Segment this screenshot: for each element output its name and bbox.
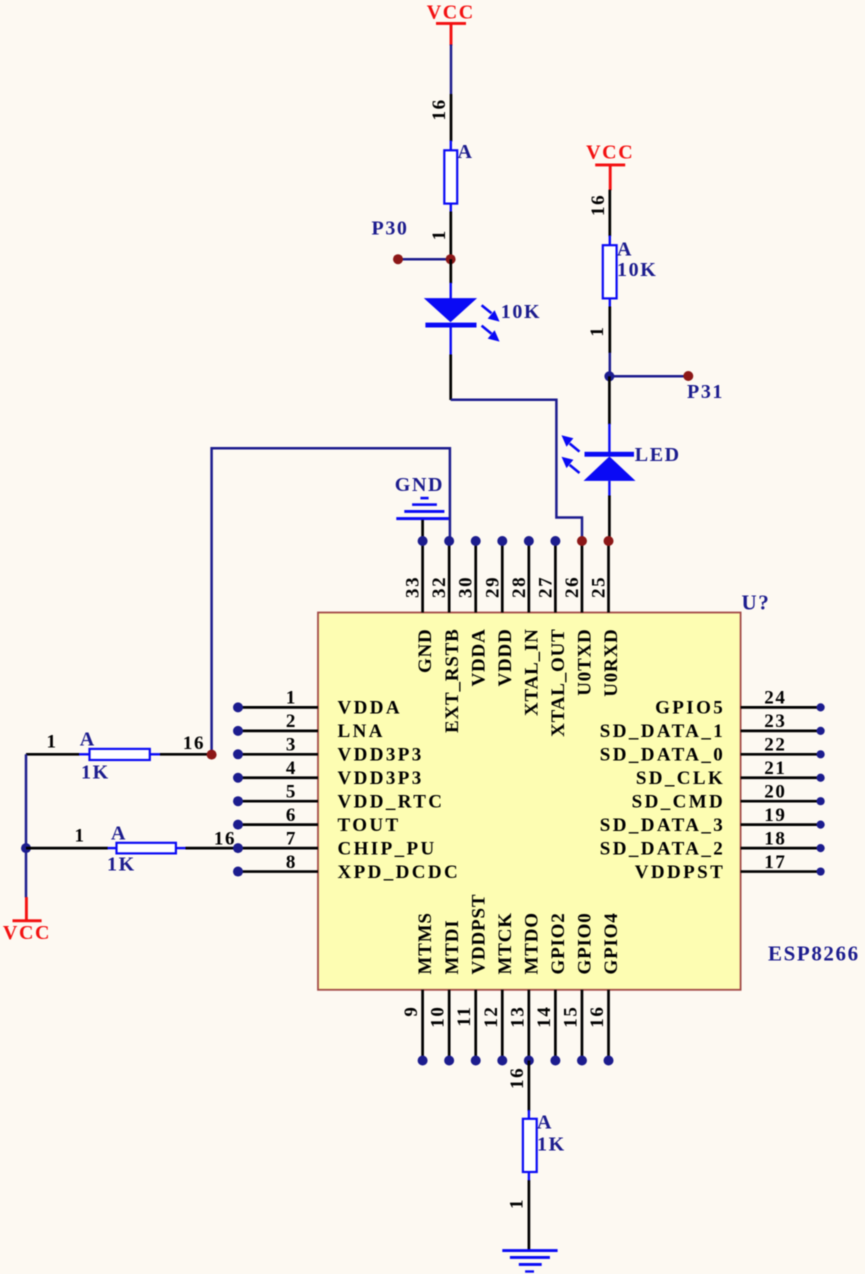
svg-text:12: 12 [481, 1006, 502, 1028]
svg-text:SD_DATA_0: SD_DATA_0 [600, 745, 725, 766]
pin 5 VDD_RTC (left) [233, 781, 444, 812]
pin 33 GND (top) [403, 536, 437, 673]
svg-text:GND: GND [415, 628, 436, 673]
svg-text:LNA: LNA [338, 721, 385, 742]
power symbol VCC (net VCC, upper right) [586, 142, 634, 191]
svg-text:GPIO2: GPIO2 [548, 912, 569, 974]
pin 13 MTDO (bottom) [507, 912, 542, 1065]
svg-text:16: 16 [214, 829, 236, 850]
part name ESP8266 [768, 942, 860, 966]
svg-text:1: 1 [429, 229, 450, 240]
label A (R3 value) [458, 141, 474, 163]
svg-text:1K: 1K [81, 762, 110, 784]
pin number 16 (R5 top pin) [507, 1067, 528, 1089]
wire LED D1 cathode to pin 26 U0TXD [451, 355, 582, 542]
pin number 1 (R1 left pin) [46, 732, 57, 753]
svg-text:LED: LED [635, 444, 681, 466]
svg-text:U?: U? [742, 591, 771, 615]
svg-text:1: 1 [46, 732, 57, 753]
pin 17 VDDPST (right) [635, 852, 825, 883]
svg-text:XTAL_IN: XTAL_IN [521, 628, 542, 716]
svg-text:VDDA: VDDA [468, 628, 489, 686]
svg-text:10K: 10K [617, 259, 657, 281]
svg-text:XPD_DCDC: XPD_DCDC [338, 862, 461, 883]
label A (R2) [617, 239, 633, 261]
pin number 1 (R2 bottom pin) [587, 325, 608, 336]
svg-text:U0TXD: U0TXD [575, 628, 596, 695]
svg-text:17: 17 [764, 852, 786, 873]
wire VCC to resistor R2 pin 16 [608, 190, 611, 237]
svg-text:MTDI: MTDI [442, 920, 463, 975]
label LED (D2) [635, 444, 681, 466]
svg-text:21: 21 [764, 758, 786, 779]
ground symbol GND (above pin 33) [396, 497, 449, 520]
resistor R5 1K (vertical, bottom) [523, 1110, 537, 1181]
svg-text:11: 11 [454, 1006, 475, 1027]
svg-text:15: 15 [560, 1006, 581, 1028]
pin 15 GPIO0 (bottom) [560, 912, 595, 1065]
pin number 1 (R3 bottom pin) [429, 229, 450, 240]
pin number 1 (R4 left pin) [74, 826, 85, 847]
pin 25 U0RXD (top) [589, 536, 623, 697]
svg-text:23: 23 [764, 711, 786, 732]
svg-text:VDDA: VDDA [338, 698, 403, 719]
pin number 16 (R3 top pin) [429, 98, 450, 120]
wire rail junction to R4 pin 1 [26, 847, 108, 850]
pin 19 SD_DATA_3 (right) [600, 805, 825, 836]
svg-text:3: 3 [286, 735, 297, 756]
svg-text:5: 5 [286, 781, 297, 802]
svg-text:20: 20 [764, 781, 786, 802]
svg-text:1: 1 [74, 826, 85, 847]
pin 11 VDDPST (bottom) [454, 894, 489, 1066]
svg-text:P31: P31 [687, 381, 724, 403]
wire R5 pin 1 to ground [528, 1180, 531, 1250]
resistor R3 (vertical, top center) [444, 141, 457, 213]
pin 27 XTAL_OUT (top) [535, 536, 569, 737]
wire R3 pin1 to node P30 [449, 212, 452, 261]
pin 28 XTAL_IN (top) [509, 536, 543, 716]
svg-text:1: 1 [507, 1198, 528, 1209]
pin 24 GPIO5 (right) [655, 688, 825, 719]
pin 26 U0TXD (top) [562, 536, 596, 696]
svg-text:SD_DATA_1: SD_DATA_1 [600, 721, 725, 742]
power symbol VCC (inverted, lower left) [3, 897, 51, 944]
svg-text:VDD_RTC: VDD_RTC [338, 792, 445, 813]
pin 20 SD_CMD (right) [632, 781, 825, 812]
svg-text:29: 29 [482, 576, 503, 598]
svg-text:28: 28 [509, 576, 530, 598]
svg-text:8: 8 [286, 852, 297, 873]
pin 7 CHIP_PU (left) [233, 828, 437, 859]
svg-text:16: 16 [507, 1067, 528, 1089]
svg-text:24: 24 [764, 688, 786, 709]
label 1K (R4 value) [107, 854, 136, 876]
svg-text:SD_DATA_3: SD_DATA_3 [600, 815, 725, 836]
pin 14 GPIO2 (bottom) [534, 912, 569, 1065]
wire left rail to R1 pin 1 [26, 753, 80, 756]
svg-text:GPIO0: GPIO0 [575, 912, 596, 974]
net label GND [395, 474, 444, 496]
label 1K (R5 value) [537, 1134, 566, 1156]
svg-text:18: 18 [764, 828, 786, 849]
pin 4 VDD3P3 (left) [233, 758, 424, 789]
svg-text:MTCK: MTCK [495, 912, 516, 974]
svg-text:22: 22 [764, 735, 786, 756]
wire pin 32 EXT_RSTB to resistor R1 (net) [212, 448, 450, 754]
svg-text:A: A [80, 729, 96, 751]
wire R2 pin1 to node P31 [608, 307, 611, 377]
svg-text:GPIO5: GPIO5 [655, 698, 725, 719]
svg-text:A: A [111, 823, 127, 845]
svg-text:1: 1 [587, 325, 608, 336]
svg-text:VDDPST: VDDPST [635, 862, 725, 883]
svg-text:16: 16 [183, 733, 205, 754]
ground symbol (bottom) [502, 1249, 557, 1273]
svg-text:MTMS: MTMS [415, 912, 436, 974]
svg-text:16: 16 [429, 98, 450, 120]
svg-text:XTAL_OUT: XTAL_OUT [548, 628, 569, 736]
svg-text:10: 10 [428, 1006, 449, 1028]
svg-text:A: A [537, 1112, 553, 1134]
label 10K (D1) [501, 301, 541, 323]
svg-text:VCC: VCC [586, 142, 634, 164]
svg-text:10K: 10K [501, 301, 541, 323]
wire VCC to resistor R3 pin 16 [450, 45, 453, 142]
svg-text:TOUT: TOUT [338, 815, 401, 836]
net label P30 [372, 218, 409, 240]
svg-text:SD_CLK: SD_CLK [636, 768, 725, 789]
svg-text:SD_DATA_2: SD_DATA_2 [600, 838, 725, 859]
pin 2 LNA (left) [233, 711, 385, 742]
svg-text:VDD3P3: VDD3P3 [338, 768, 424, 789]
pin 6 TOUT (left) [233, 805, 401, 836]
svg-text:14: 14 [534, 1006, 555, 1028]
pin 16 GPIO4 (bottom) [587, 912, 622, 1065]
svg-text:GND: GND [395, 474, 444, 496]
svg-text:30: 30 [456, 576, 477, 598]
pin 18 SD_DATA_2 (right) [600, 828, 825, 859]
svg-text:16: 16 [587, 1006, 608, 1028]
pin 21 SD_CLK (right) [636, 758, 825, 789]
wire R4 pin 16 to pin 7 CHIP_PU [186, 847, 239, 850]
LED D1 (top, anode up) [424, 283, 500, 355]
pin 9 MTMS (bottom) [401, 912, 436, 1065]
node R1/EXT_RSTB junction [160, 750, 217, 760]
resistor R2 10K (vertical, upper right) [603, 236, 617, 308]
resistor R1 1K (horizontal, upper left) [79, 749, 161, 760]
pin 32 EXT_RSTB (top) [429, 536, 463, 733]
pin 8 XPD_DCDC (left) [233, 852, 460, 883]
svg-text:VDDD: VDDD [495, 628, 516, 686]
pin number 16 (R2 top pin) [588, 194, 609, 216]
svg-text:VDDPST: VDDPST [468, 894, 489, 975]
pin 12 MTCK (bottom) [481, 912, 516, 1065]
pin 3 VDD3P3 (left) [233, 735, 424, 766]
pin number 16 (R1 right pin) [183, 733, 205, 754]
label A (R4) [111, 823, 127, 845]
svg-text:25: 25 [589, 576, 610, 598]
resistor R4 1K (horizontal, lower left) [108, 843, 187, 854]
svg-text:ESP8266: ESP8266 [768, 942, 860, 966]
svg-text:26: 26 [562, 576, 583, 598]
label 10K (R2 value) [617, 259, 657, 281]
pin 10 MTDI (bottom) [428, 920, 463, 1066]
wire pin 13 MTDO to R5 [528, 1061, 531, 1112]
svg-text:VCC: VCC [3, 922, 51, 944]
svg-text:VCC: VCC [427, 2, 475, 24]
svg-text:A: A [458, 141, 474, 163]
svg-text:A: A [617, 239, 633, 261]
svg-text:1: 1 [286, 688, 297, 709]
svg-text:MTDO: MTDO [521, 912, 542, 974]
refdes U? [742, 591, 771, 615]
svg-text:4: 4 [286, 758, 297, 779]
svg-text:GPIO4: GPIO4 [601, 912, 622, 974]
pin 22 SD_DATA_0 (right) [600, 735, 825, 766]
svg-text:16: 16 [588, 194, 609, 216]
node VCC rail / R4 junction [21, 843, 31, 853]
pin 23 SD_DATA_1 (right) [600, 711, 825, 742]
pin number 1 (R5 bottom pin) [507, 1198, 528, 1209]
label A (R1) [80, 729, 96, 751]
svg-text:VDD3P3: VDD3P3 [338, 745, 424, 766]
svg-text:CHIP_PU: CHIP_PU [338, 838, 437, 859]
svg-text:7: 7 [286, 828, 297, 849]
net label P31 [687, 381, 724, 403]
node P30 (terminal stub and junction) [393, 254, 456, 264]
svg-text:U0RXD: U0RXD [601, 628, 622, 696]
wire node P31 to LED D2 cathode [608, 376, 611, 424]
power symbol VCC (net VCC, top center) [427, 2, 475, 46]
pin number 16 (R4 right pin) [214, 829, 236, 850]
wire left VCC rail [25, 754, 28, 897]
wire GND symbol to pin 33 [421, 520, 424, 542]
LED D2 (right, anode down) [562, 424, 636, 496]
node P31 (junction and terminal stub) [604, 371, 693, 381]
wire LED D2 anode to pin 25 U0RXD [608, 496, 611, 542]
pin 1 VDDA (left) [233, 688, 402, 719]
wire node P30 to LED D1 anode [449, 259, 452, 283]
svg-text:EXT_RSTB: EXT_RSTB [442, 628, 463, 733]
label 1K (R1 value) [81, 762, 110, 784]
IC U? ESP8266 body [318, 613, 741, 990]
svg-text:32: 32 [429, 576, 450, 598]
svg-text:1K: 1K [107, 854, 136, 876]
svg-text:P30: P30 [372, 218, 409, 240]
svg-text:19: 19 [764, 805, 786, 826]
svg-text:SD_CMD: SD_CMD [632, 792, 726, 813]
svg-text:13: 13 [507, 1006, 528, 1028]
pin 30 VDDA (top) [456, 536, 490, 686]
svg-text:9: 9 [401, 1006, 422, 1017]
label A (R5) [537, 1112, 553, 1134]
svg-text:6: 6 [286, 805, 297, 826]
svg-text:1K: 1K [537, 1134, 566, 1156]
svg-text:33: 33 [403, 576, 424, 598]
svg-text:27: 27 [535, 576, 556, 598]
pin 29 VDDD (top) [482, 536, 516, 686]
svg-text:2: 2 [286, 711, 297, 732]
